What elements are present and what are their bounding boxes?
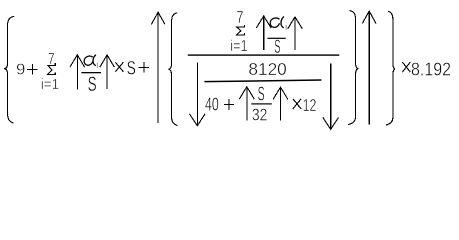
svg-text:8120: 8120 (248, 59, 287, 79)
svg-text:7: 7 (48, 51, 55, 68)
svg-text:i=1: i=1 (41, 76, 59, 93)
svg-text:i: i (285, 21, 287, 33)
svg-text:S: S (88, 73, 97, 96)
svg-text:40: 40 (205, 94, 219, 114)
svg-text:i=1: i=1 (230, 38, 247, 55)
svg-text:32: 32 (252, 105, 268, 125)
svg-text:9: 9 (16, 62, 25, 79)
svg-text:12: 12 (303, 95, 317, 115)
svg-text:i: i (96, 60, 98, 71)
svg-text:7: 7 (236, 7, 243, 27)
svg-text:S: S (274, 36, 280, 58)
svg-text:S: S (258, 82, 265, 105)
svg-text:8.192: 8.192 (411, 59, 451, 79)
svg-text:S: S (127, 58, 136, 80)
